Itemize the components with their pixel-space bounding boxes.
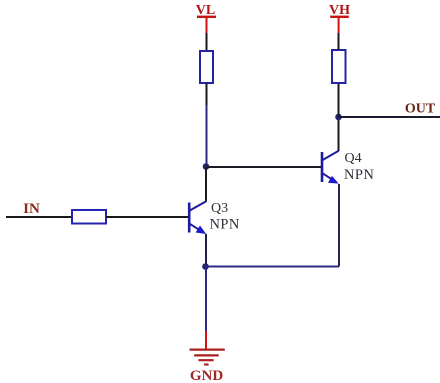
resistor R3 (input series) xyxy=(72,210,106,224)
resistor R2 xyxy=(332,50,346,83)
wire node A to Q3 collector xyxy=(205,167,207,202)
wire R2 to VH xyxy=(338,33,340,50)
svg-text:IN: IN xyxy=(23,201,40,217)
svg-text:GND: GND xyxy=(190,368,224,383)
wire R1 to node A xyxy=(206,83,208,105)
wire Q4 collector to node C xyxy=(338,117,340,151)
wire Q4 emitter vertical xyxy=(338,184,340,267)
node B junction xyxy=(202,263,209,270)
svg-text:NPN: NPN xyxy=(344,167,374,183)
transistor Q3 xyxy=(189,201,206,234)
ground GND symbol xyxy=(190,350,225,365)
wire R3 to Q3 base xyxy=(106,216,188,218)
wire node B to Q4 emitter (bottom run) xyxy=(206,266,340,268)
wire node C to OUT (right edge) xyxy=(339,116,440,118)
wire node A to Q4 base xyxy=(206,166,321,168)
svg-text:OUT: OUT xyxy=(405,102,436,117)
wire VL to R1 xyxy=(206,33,208,52)
svg-text:NPN: NPN xyxy=(210,217,240,233)
resistor R1 xyxy=(200,51,213,83)
power port VH xyxy=(329,3,350,33)
node C junction xyxy=(335,114,342,121)
power port VL xyxy=(196,3,216,33)
wire node B to GND xyxy=(205,267,207,331)
transistor Q4 xyxy=(322,151,339,184)
wire node C to R2 xyxy=(338,83,340,117)
node A junction xyxy=(203,163,210,170)
svg-text:Q4: Q4 xyxy=(345,151,362,166)
svg-text:Q3: Q3 xyxy=(211,201,228,216)
wire IN to R3 xyxy=(6,216,72,218)
wire Q3 emitter to node B xyxy=(205,234,207,266)
